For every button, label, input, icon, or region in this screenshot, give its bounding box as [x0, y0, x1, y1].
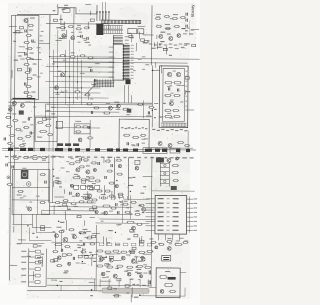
transistor Q22	[95, 210, 98, 213]
resistor R47	[137, 100, 144, 118]
wire bus mid3	[50, 106, 119, 108]
wire stubs and labels r9c1	[38, 226, 44, 247]
wire stubs and labels r9c4	[115, 232, 116, 233]
wire vbus left	[34, 100, 45, 152]
connector CN3 pins	[21, 248, 46, 286]
wire diag2	[21, 214, 44, 243]
resistor R36	[174, 26, 180, 28]
cap pair CN4	[149, 270, 150, 284]
labels right of cluster	[46, 104, 55, 115]
wire stubs and labels r10c4	[106, 256, 107, 257]
wire stubs and labels r3c7	[177, 86, 186, 95]
wire stubs and labels r2c1	[32, 59, 42, 61]
chroma cluster	[68, 156, 103, 201]
resistor R53	[173, 95, 180, 97]
wire long bottom1	[47, 279, 151, 286]
resistor R56	[164, 115, 172, 117]
wire 3bus	[42, 203, 133, 212]
wire stubs and labels r6c2	[52, 156, 60, 170]
wire stubs and labels r0c3	[87, 22, 89, 28]
resistor network RN1	[101, 26, 123, 34]
resistor R9	[25, 85, 31, 87]
wire stubs and labels r4c4	[106, 103, 110, 104]
wire stubs and labels r7c4	[104, 185, 106, 195]
choke L2	[126, 109, 131, 116]
power supply cluster	[96, 225, 154, 290]
resistor R60	[122, 108, 129, 110]
wire module feed2	[149, 272, 186, 287]
wire stubs and labels r1c7	[185, 29, 194, 31]
IC U1 body	[113, 44, 124, 80]
resistor R41	[69, 52, 75, 58]
transistor Q9	[54, 86, 58, 90]
resistor R55	[172, 110, 179, 112]
wire left lower	[12, 223, 32, 225]
resistor R65	[177, 142, 184, 144]
wire stubs and labels r9c3	[82, 232, 86, 254]
wire stubs and labels r9c0	[13, 226, 15, 232]
wire stubs and labels r10c3	[78, 255, 96, 263]
wire stubs and labels r2c0	[14, 55, 22, 60]
transistor Q14	[108, 106, 112, 110]
diode D3	[45, 181, 46, 184]
scan noise speckle	[7, 2, 196, 300]
wire stubs and labels r10c4	[102, 254, 119, 269]
wire stubs and labels r1c2	[55, 30, 66, 41]
wire stubs and labels r10c3	[76, 254, 98, 263]
resistor R88	[138, 204, 144, 206]
transistor Q7	[177, 34, 181, 38]
wire stubs and labels r9c5	[130, 230, 134, 232]
resistor R10	[23, 91, 35, 93]
wire V mids	[123, 195, 150, 223]
resistor R5	[25, 57, 31, 59]
wire stubs and labels r1c5	[127, 33, 153, 51]
wire diag	[36, 215, 55, 250]
choke FB1	[96, 24, 103, 35]
capacitor C4	[30, 69, 31, 72]
resistor R91	[126, 221, 134, 223]
capacitor C60	[116, 203, 117, 206]
wire stubs and labels r4c6	[154, 117, 155, 118]
wire stubs and labels r9c0	[17, 240, 26, 244]
transistor Q23	[104, 211, 108, 215]
wire stubs and labels r8c2	[54, 205, 71, 222]
resistor R71	[23, 156, 29, 158]
wire stubs and labels r7c5	[130, 177, 145, 194]
bus taps	[94, 79, 130, 103]
wire stubs and labels r7c2	[54, 181, 64, 197]
label row top-right	[149, 43, 188, 45]
wire module feed	[151, 65, 153, 127]
vertical deflection cluster	[4, 98, 35, 148]
wire bus 200	[42, 211, 133, 216]
resistor R33	[180, 17, 186, 19]
diode D2	[41, 157, 47, 159]
left border line 2	[14, 15, 15, 224]
resistor R35	[165, 24, 171, 30]
transistor Q21	[28, 207, 32, 211]
wire fan from U1	[84, 83, 95, 100]
resistor R83	[108, 195, 114, 197]
resistor R101	[164, 283, 173, 286]
resistor R32	[172, 14, 178, 20]
wire stubs and labels r10c3	[86, 257, 97, 259]
wire stubs and labels r10c5	[132, 254, 151, 260]
wire stubs and labels r10c5	[130, 251, 136, 263]
wire stubs and labels r10c1	[37, 257, 43, 267]
resistor R72	[32, 155, 38, 160]
wire stubs and labels r4c7	[0, 0, 2, 1]
resistor R61	[103, 112, 110, 114]
wire stubs and labels r2c0	[17, 52, 25, 71]
wire stub left	[9, 25, 17, 27]
wire y163	[8, 161, 50, 163]
wire stubs and labels r1c7	[191, 30, 199, 47]
capacitor C30	[91, 69, 92, 72]
resistor R84	[102, 205, 110, 207]
wire stubs and labels r0c3	[90, 11, 92, 15]
capacitor C1	[25, 29, 33, 32]
wire stubs and labels r11c4	[113, 295, 121, 297]
wire elbow2	[29, 228, 51, 241]
resistor R78	[39, 160, 46, 204]
wire stubs and labels r8c5	[134, 211, 144, 213]
resistor R51	[173, 82, 181, 84]
wire stubs and labels r1c0	[19, 32, 25, 47]
resistor R95	[149, 238, 156, 243]
wire stubs and labels r1c6	[157, 35, 168, 51]
wire stubs and labels r2c0	[0, 0, 2, 1]
wire stubs and labels r7c4	[118, 195, 122, 197]
wire stubs and labels r11c2	[57, 285, 58, 286]
wire stubs and labels r2c1	[29, 58, 34, 59]
sub-board frame	[119, 119, 149, 151]
wire V157a	[104, 157, 109, 163]
wire stubs and labels r9c1	[32, 233, 35, 234]
resistor R7	[24, 71, 30, 73]
IC U3 with pin rows	[145, 195, 197, 234]
socket symbol	[7, 176, 10, 179]
wire mesh horizontals	[45, 57, 114, 98]
resistor R80	[54, 198, 92, 207]
IC U1 bottom bundle	[93, 80, 114, 86]
luma delay cluster	[74, 121, 93, 142]
wire stubs and labels r9c4	[103, 230, 112, 246]
resistor R74	[40, 174, 46, 176]
wire stubs and labels r11c4	[100, 280, 111, 282]
wire stubs and labels r9c1	[27, 225, 38, 247]
IF transformer ladder	[151, 156, 195, 250]
resistor R42	[79, 55, 85, 57]
transistor Q17	[168, 143, 172, 147]
transistor Q12	[169, 101, 173, 105]
label row in frame	[121, 127, 147, 129]
wire stubs and labels r2c6	[156, 55, 172, 68]
audio parts row	[52, 251, 87, 267]
wire stubs and labels r1c0	[13, 30, 20, 41]
wire vertical bus V1	[151, 5, 153, 65]
wire stubs and labels r10c2	[52, 261, 67, 273]
transistor Q25	[131, 226, 135, 230]
wire stubs and labels r1c6	[166, 28, 170, 29]
resistor R92	[136, 223, 142, 225]
wire stubs and labels r0c2	[53, 7, 67, 22]
wire stubs and labels r7c3	[82, 179, 94, 200]
transistor Q1	[24, 17, 35, 22]
transistor Q8	[58, 71, 65, 77]
resistor R66	[184, 145, 190, 147]
wire stubs and labels r9c5	[130, 232, 144, 250]
wire stubs and labels r4c4	[116, 109, 121, 111]
diode D5	[182, 242, 188, 244]
tuner pin labels	[185, 71, 188, 107]
wire stubs and labels r8c3	[77, 208, 95, 218]
wire stubs and labels r7c4	[116, 180, 117, 181]
resistor R81	[91, 206, 97, 208]
transistor Q3	[71, 36, 81, 40]
wire stubs and labels r0c3	[85, 3, 91, 5]
tuner shield box	[159, 66, 188, 128]
chain spine	[26, 17, 29, 97]
crystal Y1	[162, 255, 171, 261]
IC U3 bottom stubs	[158, 234, 179, 241]
capacitor bank C10-C14	[96, 11, 110, 24]
wire feed top	[102, 2, 105, 20]
wire V157b	[114, 157, 128, 200]
wire stubs and labels r7c2	[53, 175, 62, 187]
wire stubs and labels r1c5	[138, 26, 149, 42]
wire top loop	[58, 5, 97, 15]
resistor R44	[74, 87, 80, 93]
transistor Q11	[176, 72, 180, 76]
wire stubs and labels r8c3	[84, 220, 86, 225]
resistor R98	[174, 244, 182, 246]
resistor R6	[23, 63, 36, 65]
resistor R21	[68, 26, 74, 28]
wire stubs and labels r4c6	[159, 116, 164, 117]
wire stubs and labels r1c7	[181, 28, 185, 29]
capacitor C3	[25, 52, 34, 55]
transistor Q26	[155, 246, 158, 249]
resistor R97	[166, 238, 172, 243]
wire long bottom2	[27, 278, 102, 291]
wire right band	[150, 130, 193, 148]
wire stubs and labels r10c5	[126, 257, 144, 273]
wire stubs and labels r0c2	[63, 21, 65, 29]
resistor R100	[159, 275, 167, 278]
margin mark	[187, 21, 190, 36]
resistor R52	[164, 94, 171, 96]
wire stubs and labels r9c3	[78, 233, 82, 248]
wire right bottom bus	[151, 196, 190, 287]
resistor R63	[132, 136, 139, 138]
capacitor C40	[127, 142, 128, 145]
switch box SW1	[12, 169, 50, 214]
transistor Q5	[159, 34, 163, 38]
wire drop	[109, 24, 132, 43]
label comb right	[152, 129, 187, 131]
resistor R76	[17, 190, 24, 195]
audio amp cluster	[51, 227, 99, 252]
IC U1 right pins	[123, 45, 134, 80]
wire stubs and labels r9c4	[115, 243, 119, 245]
wire stubs and labels r3c7	[185, 77, 190, 93]
capacitor C50	[6, 163, 7, 166]
resistor R82	[100, 194, 106, 199]
wire H219	[96, 219, 156, 223]
coil L3	[21, 170, 29, 179]
wire stubs and labels r7c2	[53, 181, 64, 193]
wire stubs and labels r10c1	[26, 253, 44, 280]
wire mid top	[46, 8, 97, 24]
resistor R85	[110, 207, 116, 209]
wire stubs and labels r10c4	[109, 256, 113, 258]
resistor R31	[164, 15, 170, 17]
resistor R87	[130, 201, 136, 203]
wire stubs and labels r0c3	[90, 19, 94, 21]
label row bottom mid	[99, 243, 152, 246]
wire long bottom3	[139, 287, 185, 296]
wire stubs and labels r1c2	[61, 38, 67, 40]
label in module	[165, 271, 170, 272]
transistor Q15	[114, 102, 120, 109]
wire stubs and labels r9c5	[134, 234, 138, 236]
junction dots	[49, 56, 82, 98]
wire stubs and labels r4c7	[185, 109, 194, 111]
sub frame left	[35, 118, 57, 142]
resistor R8	[26, 74, 36, 79]
wire stubs and labels r2c6	[161, 65, 163, 73]
resistor R96	[158, 243, 164, 245]
wire stubs and labels r7c4	[111, 191, 113, 200]
resistor R64	[140, 134, 146, 136]
resistor R75	[7, 183, 13, 185]
wire stubs and labels r1c6	[154, 42, 166, 54]
transistor Q16	[158, 141, 162, 145]
svg-text:library: library	[190, 4, 195, 17]
margin text library	[190, 4, 195, 17]
wire stubs and labels r0c2	[53, 4, 66, 20]
IC U1 left pins	[109, 47, 114, 77]
capacitor C51	[12, 165, 13, 168]
resistor R43	[87, 57, 93, 59]
socket symbol B	[27, 182, 31, 186]
tuner bottom comb	[161, 123, 186, 127]
dark label M2	[168, 277, 176, 280]
component M1	[135, 160, 140, 170]
transistor Q24	[142, 207, 146, 211]
wire stubs and labels r10c0	[9, 265, 17, 267]
tick row y197	[100, 196, 128, 199]
resistor R50	[164, 81, 172, 83]
resistor R34	[156, 25, 162, 27]
relay K1	[63, 5, 70, 13]
capacitor C31	[91, 79, 96, 85]
diode D1	[26, 95, 32, 97]
wire stubs and labels r10c3	[89, 252, 92, 266]
wire stubs and labels r8c2	[66, 220, 68, 230]
resistor R2	[26, 34, 32, 36]
resistor R20	[60, 24, 66, 29]
wire stubs and labels r7c3	[81, 196, 86, 198]
resistor R22	[76, 25, 82, 30]
resistor R54	[164, 109, 171, 111]
capacitor C5	[24, 82, 25, 85]
wire stubs and labels r9c3	[79, 231, 100, 237]
capacitor C32	[168, 87, 169, 90]
wire stubs and labels r11c5	[125, 279, 141, 296]
wire long H2	[54, 61, 188, 64]
wire stubs and labels r4c7	[0, 0, 2, 1]
wire long H1	[51, 58, 200, 59]
transistor Q10	[167, 72, 171, 76]
wire elbow	[32, 214, 51, 228]
wire stubs and labels r11c5	[134, 285, 146, 298]
wire stubs and labels r1c6	[160, 32, 165, 33]
wire stubs and labels r11c5	[126, 284, 135, 303]
wire stubs and labels r1c0	[13, 32, 20, 34]
IC U2 pin column	[113, 35, 129, 44]
resistor R1	[28, 24, 34, 26]
IF label row	[55, 120, 100, 148]
wire stubs and labels r11c4	[115, 295, 119, 297]
wire stubs and labels r9c0	[0, 0, 2, 1]
wire stubs and labels r11c3	[91, 289, 92, 290]
wire stubs and labels r4c1	[42, 118, 46, 120]
wire stubs and labels r7c5	[143, 177, 153, 188]
wire stubs and labels r7c5	[128, 177, 133, 186]
connector strip row	[2, 147, 196, 159]
wire stubs and labels r9c4	[107, 242, 110, 243]
connector J2 comb	[101, 20, 141, 24]
wire top rail	[17, 13, 58, 15]
resistor R4	[27, 47, 33, 49]
wire stubs and labels r7c2	[56, 177, 60, 178]
wire stub	[39, 15, 50, 50]
wire bus mid2	[34, 112, 152, 117]
wire stubs and labels r11c4	[106, 276, 121, 289]
wire stubs and labels r8c2	[60, 205, 68, 223]
wire stubs and labels r1c0	[19, 26, 23, 28]
wire stubs and labels r11c2	[51, 280, 63, 282]
resistor R46	[86, 103, 99, 114]
wire stubs and labels r7c3	[89, 186, 93, 187]
connector P1 frame	[11, 15, 39, 99]
capacitor C33	[177, 89, 178, 92]
wire stubs and labels r4c7	[0, 0, 2, 1]
wire stubs and labels r11c3	[90, 295, 93, 296]
resistor R70	[13, 155, 19, 159]
wire stubs and labels r10c2	[51, 259, 58, 262]
stray label texture	[6, 15, 190, 285]
scanned TV chassis schematic page	[0, 0, 200, 305]
resistor R89	[124, 211, 130, 213]
wire stubs and labels r8c5	[139, 205, 154, 210]
transistor Q30	[160, 290, 164, 294]
resistor R40	[59, 55, 65, 57]
transistor Q6	[167, 33, 173, 40]
capacitor bank C20	[186, 13, 188, 28]
resistor R45	[84, 94, 90, 96]
wire bus mid	[8, 102, 152, 105]
component cluster left of tuner	[146, 106, 154, 116]
resistor R62	[123, 134, 130, 136]
wire stubs and labels r4c6	[154, 103, 166, 110]
wire stubs and labels r10c2	[62, 254, 69, 272]
wire mesh verticals	[49, 15, 82, 152]
wire stubs and labels r1c7	[190, 33, 194, 34]
